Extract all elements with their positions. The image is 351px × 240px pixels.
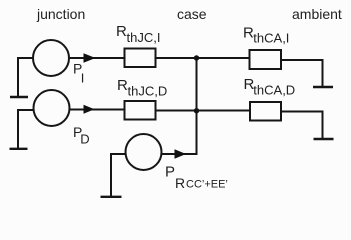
svg-text:thCA,D: thCA,D <box>253 83 295 98</box>
svg-text:thJC,D: thJC,D <box>128 84 168 99</box>
svg-text:R: R <box>175 175 185 191</box>
svg-text:I: I <box>81 71 85 86</box>
svg-text:junction: junction <box>36 6 85 22</box>
svg-text:CC’+EE’: CC’+EE’ <box>186 179 228 191</box>
svg-text:D: D <box>80 132 89 147</box>
svg-text:thJC,I: thJC,I <box>127 30 161 45</box>
svg-text:R: R <box>117 77 128 94</box>
svg-text:ambient: ambient <box>292 6 342 22</box>
svg-text:R: R <box>116 23 127 40</box>
svg-text:P: P <box>165 164 175 181</box>
svg-text:thCA,I: thCA,I <box>253 31 289 46</box>
svg-text:case: case <box>177 6 207 22</box>
